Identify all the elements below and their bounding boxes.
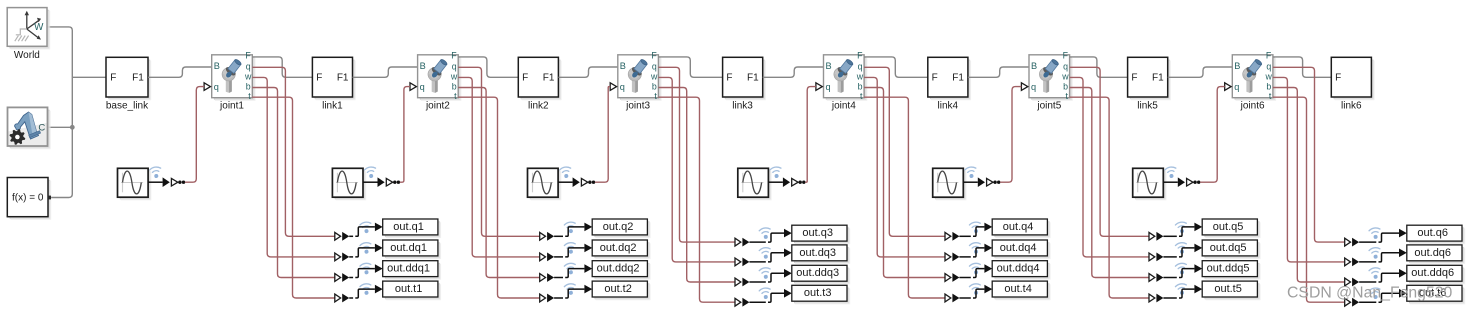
badge streaming out.t5 (1175, 283, 1188, 296)
wire F1 to joint5.B (968, 67, 1029, 77)
converter PS-Simulink out.ddq6 (1345, 278, 1359, 287)
block Sine Wave 1 (118, 168, 152, 200)
svg-text:out.t3: out.t3 (804, 287, 832, 299)
outport block out.dq5 (1202, 240, 1260, 259)
svg-text:F: F (245, 50, 251, 60)
badge streaming sine 5 (965, 166, 978, 179)
svg-text:W: W (34, 22, 44, 33)
svg-text:B: B (214, 61, 220, 71)
port arrow joint6.q input (1225, 83, 1231, 91)
svg-text:q: q (420, 82, 425, 92)
svg-text:F: F (932, 72, 938, 83)
svg-text:out.t1: out.t1 (395, 283, 423, 295)
svg-text:link4: link4 (938, 101, 959, 112)
svg-text:B: B (1234, 61, 1240, 71)
wire joint5.b to out.ddq5 (1070, 88, 1149, 278)
svg-text:F: F (726, 72, 732, 83)
wire to out.ddq5 (1163, 264, 1202, 277)
wire to out.ddq2 (554, 264, 592, 277)
wire joint6.F to link6.F (1273, 57, 1331, 77)
block link2 (518, 57, 561, 100)
block link3 (723, 57, 766, 100)
converter PS-Simulink out.ddq4 (945, 273, 959, 282)
svg-text:out.q2: out.q2 (603, 221, 634, 233)
svg-text:q: q (1266, 62, 1271, 72)
converter PS-Simulink out.ddq5 (1149, 273, 1163, 282)
wire joint6.b to out.ddq6 (1273, 88, 1345, 283)
badge streaming out.ddq4 (969, 263, 982, 276)
outport block out.t3 (792, 285, 850, 304)
svg-text:joint1: joint1 (219, 101, 244, 112)
label link2 (528, 101, 549, 112)
svg-text:out.ddq5: out.ddq5 (1207, 263, 1250, 275)
wire sine to joint5.q (1000, 87, 1021, 183)
wire joint4.b to out.ddq4 (864, 88, 945, 278)
badge streaming out.ddq5 (1175, 263, 1188, 276)
wire joint4.w to out.dq4 (864, 77, 945, 257)
svg-text:q: q (1031, 82, 1036, 92)
svg-text:w: w (856, 72, 864, 82)
block link5 (1128, 57, 1171, 100)
block joint1 (212, 50, 256, 101)
block Sine Wave 4 (738, 168, 772, 200)
svg-text:link5: link5 (1137, 101, 1158, 112)
outport block out.dq4 (992, 240, 1050, 259)
label link1 (322, 101, 343, 112)
wire to out.t5 (1163, 285, 1202, 298)
wire to out.dq5 (1163, 244, 1202, 257)
svg-text:w: w (1061, 72, 1069, 82)
wire to out.t4 (959, 285, 992, 298)
badge streaming out.dq1 (360, 242, 373, 255)
converter PS-Simulink out.q3 (735, 238, 749, 247)
block World (7, 8, 50, 50)
wire joint6.t to out.t6 (1273, 97, 1345, 302)
wire to out.dq4 (959, 244, 992, 257)
svg-text:q: q (858, 62, 863, 72)
svg-text:link1: link1 (322, 101, 343, 112)
badge streaming out.dq4 (969, 242, 982, 255)
wire to out.t3 (749, 289, 791, 302)
svg-text:B: B (620, 61, 626, 71)
wire F1 to joint2.B (353, 67, 418, 77)
block joint5 (1029, 50, 1073, 101)
wire joint1.b to out.ddq1 (252, 88, 334, 278)
port arrow joint5.q input (1021, 83, 1027, 91)
badge streaming out.q4 (969, 221, 982, 234)
svg-text:out.dq2: out.dq2 (600, 242, 637, 254)
svg-text:F: F (1266, 50, 1272, 60)
svg-text:F: F (110, 72, 116, 83)
label link5 (1137, 101, 1158, 112)
outport block out.dq2 (592, 240, 650, 259)
wire F1 to joint1.B (148, 67, 212, 77)
wire to out.dq1 (349, 244, 383, 257)
wire joint5.F to link5.F (1070, 57, 1128, 77)
port arrow joint3.q input (610, 83, 616, 91)
wire joint1.t to out.t1 (252, 97, 334, 298)
badge streaming out.dq5 (1175, 242, 1188, 255)
outport block out.q4 (992, 219, 1050, 238)
svg-text:out.dq5: out.dq5 (1210, 242, 1247, 254)
svg-text:joint4: joint4 (831, 101, 856, 112)
label World (14, 50, 40, 61)
svg-text:w: w (1265, 72, 1273, 82)
svg-text:joint2: joint2 (425, 101, 450, 112)
svg-text:F: F (1063, 50, 1069, 60)
svg-text:joint3: joint3 (625, 101, 650, 112)
badge streaming out.q2 (564, 221, 577, 234)
wire World.W / Config.C / Solver net (47, 27, 106, 198)
block joint4 (824, 50, 868, 101)
svg-text:out.q5: out.q5 (1213, 221, 1244, 233)
converter PS-Simulink out.q1 (335, 232, 349, 241)
svg-text:C: C (38, 122, 45, 133)
converter Simulink-PS 6 (1163, 177, 1200, 187)
block joint2 (418, 50, 462, 101)
svg-text:out.ddq1: out.ddq1 (387, 263, 430, 275)
outport block out.t6 (1407, 285, 1465, 304)
wire joint2.b to out.ddq2 (458, 88, 540, 278)
wire to out.q2 (554, 223, 592, 237)
badge streaming out.t2 (564, 283, 577, 296)
svg-text:B: B (420, 61, 426, 71)
outport block out.q2 (592, 219, 650, 238)
block Sine Wave 2 (332, 168, 366, 200)
block joint3 (618, 50, 662, 101)
converter PS-Simulink out.t4 (945, 294, 959, 303)
outport block out.t1 (383, 281, 441, 300)
converter PS-Simulink out.dq4 (945, 253, 959, 262)
svg-text:out.dq4: out.dq4 (1000, 242, 1037, 254)
svg-text:q: q (652, 62, 657, 72)
badge streaming out.ddq3 (759, 267, 772, 280)
svg-text:joint5: joint5 (1036, 101, 1061, 112)
outport block out.ddq2 (592, 261, 650, 280)
svg-text:q: q (620, 82, 625, 92)
wire to out.ddq4 (959, 264, 992, 277)
svg-text:link3: link3 (732, 101, 753, 112)
outport block out.q1 (383, 219, 441, 238)
svg-text:f(x) = 0: f(x) = 0 (12, 193, 44, 204)
svg-text:out.dq1: out.dq1 (390, 242, 427, 254)
converter PS-Simulink out.q5 (1149, 232, 1163, 241)
svg-text:q: q (246, 62, 251, 72)
svg-text:out.q6: out.q6 (1417, 227, 1448, 239)
label joint5 (1036, 101, 1061, 112)
label joint3 (625, 101, 650, 112)
wire joint1.F to link1.F (252, 57, 312, 77)
block base_link (106, 57, 151, 100)
svg-text:F1: F1 (1152, 72, 1164, 83)
wire F1 to joint6.B (1168, 67, 1233, 77)
wire joint2.q to out.q2 (458, 67, 540, 236)
svg-text:World: World (14, 50, 40, 61)
wire joint3.F to link3.F (658, 57, 722, 77)
wire joint3.t to out.t3 (658, 97, 735, 302)
converter PS-Simulink out.t5 (1149, 294, 1163, 303)
block Solver f(x)=0 (7, 178, 51, 220)
converter PS-Simulink out.t3 (735, 298, 749, 307)
svg-text:q: q (452, 62, 457, 72)
svg-text:out.t2: out.t2 (604, 283, 632, 295)
outport block out.q3 (792, 225, 850, 244)
wire to out.dq2 (554, 244, 592, 257)
outport block out.ddq1 (383, 261, 441, 280)
block link4 (928, 57, 971, 100)
badge streaming sine 4 (770, 166, 783, 179)
converter Simulink-PS 5 (963, 177, 1000, 187)
wire joint4.t to out.t4 (864, 97, 945, 298)
wire to out.ddq3 (749, 269, 791, 282)
wire to out.q1 (349, 223, 383, 237)
wire sine to joint3.q (595, 87, 610, 183)
outport block out.dq3 (792, 245, 850, 264)
block Sine Wave 5 (933, 168, 967, 200)
converter Simulink-PS 3 (558, 177, 595, 187)
wire to out.ddq6 (1359, 269, 1407, 282)
svg-text:F1: F1 (747, 72, 759, 83)
converter PS-Simulink out.q4 (945, 232, 959, 241)
svg-text:F1: F1 (952, 72, 964, 83)
block Sine Wave 6 (1133, 168, 1167, 200)
wire sine to joint6.q (1200, 87, 1225, 183)
port arrow joint2.q input (410, 83, 416, 91)
converter PS-Simulink out.t2 (540, 294, 554, 303)
block link6 (1331, 57, 1374, 100)
watermark CSDN (1287, 285, 1453, 302)
wire joint2.w to out.dq2 (458, 77, 540, 257)
block link1 (312, 57, 355, 100)
wire joint3.q to out.q3 (658, 67, 735, 242)
svg-text:q: q (214, 82, 219, 92)
badge streaming out.t6 (1369, 287, 1382, 300)
wire to out.t2 (554, 285, 592, 298)
svg-text:out.dq3: out.dq3 (799, 247, 836, 259)
badge streaming out.dq2 (564, 242, 577, 255)
converter Simulink-PS 2 (363, 177, 400, 187)
outport block out.t4 (992, 281, 1050, 300)
label joint6 (1240, 101, 1265, 112)
outport block out.q6 (1407, 225, 1465, 244)
badge streaming out.q5 (1175, 221, 1188, 234)
svg-text:out.ddq6: out.ddq6 (1411, 267, 1454, 279)
port arrow joint1.q input (204, 83, 210, 91)
badge streaming out.q1 (360, 221, 373, 234)
svg-text:F: F (857, 50, 863, 60)
label joint1 (219, 101, 244, 112)
converter PS-Simulink out.ddq1 (335, 273, 349, 282)
wire to out.q6 (1359, 229, 1407, 242)
svg-text:CSDN @Nan_Feng520: CSDN @Nan_Feng520 (1287, 285, 1453, 302)
converter PS-Simulink out.dq5 (1149, 253, 1163, 262)
wire joint2.F to link2.F (458, 57, 518, 77)
svg-text:w: w (450, 72, 458, 82)
svg-text:out.q1: out.q1 (393, 221, 424, 233)
wire joint3.w to out.dq3 (658, 77, 735, 262)
converter PS-Simulink out.t1 (335, 294, 349, 303)
svg-text:out.q3: out.q3 (802, 227, 833, 239)
wire joint6.w to out.dq6 (1273, 77, 1345, 262)
wire joint3.b to out.ddq3 (658, 88, 735, 283)
svg-text:w: w (244, 72, 252, 82)
wire joint1.w to out.dq1 (252, 77, 334, 257)
svg-text:F: F (1131, 72, 1137, 83)
wire to out.dq6 (1359, 249, 1407, 262)
badge streaming out.q3 (759, 227, 772, 240)
converter PS-Simulink out.ddq2 (540, 273, 554, 282)
badge streaming out.ddq2 (564, 263, 577, 276)
port arrow joint4.q input (816, 83, 822, 91)
svg-text:F: F (651, 50, 657, 60)
wire to out.q5 (1163, 223, 1202, 237)
badge streaming out.ddq1 (360, 263, 373, 276)
svg-text:B: B (1031, 61, 1037, 71)
wire joint2.t to out.t2 (458, 97, 540, 298)
converter PS-Simulink out.ddq3 (735, 278, 749, 287)
label link3 (732, 101, 753, 112)
wire joint4.F to link4.F (864, 57, 928, 77)
converter PS-Simulink out.q6 (1345, 238, 1359, 247)
badge streaming out.t3 (759, 287, 772, 300)
outport block out.ddq4 (992, 261, 1050, 280)
svg-text:out.ddq4: out.ddq4 (997, 263, 1040, 275)
svg-text:F1: F1 (132, 72, 144, 83)
badge streaming out.ddq6 (1369, 267, 1382, 280)
badge streaming out.t1 (360, 283, 373, 296)
wire sine to joint2.q (400, 87, 410, 183)
svg-text:out.t4: out.t4 (1004, 283, 1032, 295)
outport block out.dq6 (1407, 245, 1465, 264)
outport block out.ddq6 (1407, 265, 1465, 284)
junction node at Config C (48, 125, 75, 130)
badge streaming sine 3 (559, 166, 572, 179)
label joint2 (425, 101, 450, 112)
label joint4 (831, 101, 856, 112)
converter PS-Simulink out.dq2 (540, 253, 554, 262)
badge streaming out.dq3 (759, 247, 772, 260)
converter PS-Simulink out.dq1 (335, 253, 349, 262)
wire joint5.t to out.t5 (1070, 97, 1149, 298)
converter PS-Simulink out.t6 (1345, 298, 1359, 307)
wire to out.dq3 (749, 249, 791, 262)
svg-text:q: q (826, 82, 831, 92)
converter PS-Simulink out.q2 (540, 232, 554, 241)
wire joint5.w to out.dq5 (1070, 77, 1149, 257)
block Mechanism Configuration (8, 107, 51, 149)
label link6 (1341, 101, 1362, 112)
outport block out.q5 (1202, 219, 1260, 238)
badge streaming sine 6 (1165, 166, 1178, 179)
wire to out.q3 (749, 229, 791, 242)
outport block out.ddq3 (792, 265, 850, 284)
wire to out.q4 (959, 223, 992, 237)
badge streaming out.q6 (1369, 227, 1382, 240)
svg-text:B: B (826, 61, 832, 71)
badge streaming sine 2 (364, 166, 377, 179)
svg-text:F: F (451, 50, 457, 60)
svg-text:F: F (1335, 72, 1341, 83)
label base_link (106, 101, 149, 112)
outport block out.t5 (1202, 281, 1260, 300)
wire to out.t1 (349, 285, 383, 298)
wire to out.t6 (1359, 289, 1407, 302)
converter PS-Simulink out.dq6 (1345, 258, 1359, 267)
wire joint1.q to out.q1 (252, 67, 334, 236)
wire to out.ddq1 (349, 264, 383, 277)
svg-text:F: F (522, 72, 528, 83)
svg-text:link2: link2 (528, 101, 549, 112)
label link4 (938, 101, 959, 112)
badge streaming out.dq6 (1369, 247, 1382, 260)
svg-text:q: q (1063, 62, 1068, 72)
svg-text:w: w (650, 72, 658, 82)
block Sine Wave 3 (528, 168, 562, 200)
wire sine to joint1.q (185, 87, 204, 183)
svg-text:link6: link6 (1341, 101, 1362, 112)
svg-text:out.ddq2: out.ddq2 (597, 263, 640, 275)
converter Simulink-PS 1 (148, 177, 185, 187)
svg-text:out.ddq3: out.ddq3 (796, 267, 839, 279)
svg-text:joint6: joint6 (1240, 101, 1265, 112)
wire joint6.q to out.q6 (1273, 67, 1345, 242)
svg-text:out.dq6: out.dq6 (1414, 247, 1451, 259)
wire joint4.q to out.q4 (864, 67, 945, 236)
svg-text:F1: F1 (337, 72, 349, 83)
badge streaming out.t4 (969, 283, 982, 296)
svg-text:base_link: base_link (106, 101, 149, 112)
svg-text:F1: F1 (543, 72, 555, 83)
wire joint5.q to out.q5 (1070, 67, 1149, 236)
outport block out.dq1 (383, 240, 441, 259)
block joint6 (1232, 50, 1276, 101)
svg-text:out.t5: out.t5 (1214, 283, 1242, 295)
converter Simulink-PS 4 (768, 177, 805, 187)
outport block out.ddq5 (1202, 261, 1260, 280)
wire F1 to joint3.B (558, 67, 617, 77)
badge streaming sine 1 (149, 166, 162, 179)
outport block out.t2 (592, 281, 650, 300)
converter PS-Simulink out.dq3 (735, 258, 749, 267)
svg-text:F: F (316, 72, 322, 83)
wire F1 to joint4.B (763, 67, 824, 77)
svg-text:out.q4: out.q4 (1003, 221, 1034, 233)
wire sine to joint4.q (805, 87, 816, 183)
svg-text:q: q (1234, 82, 1239, 92)
